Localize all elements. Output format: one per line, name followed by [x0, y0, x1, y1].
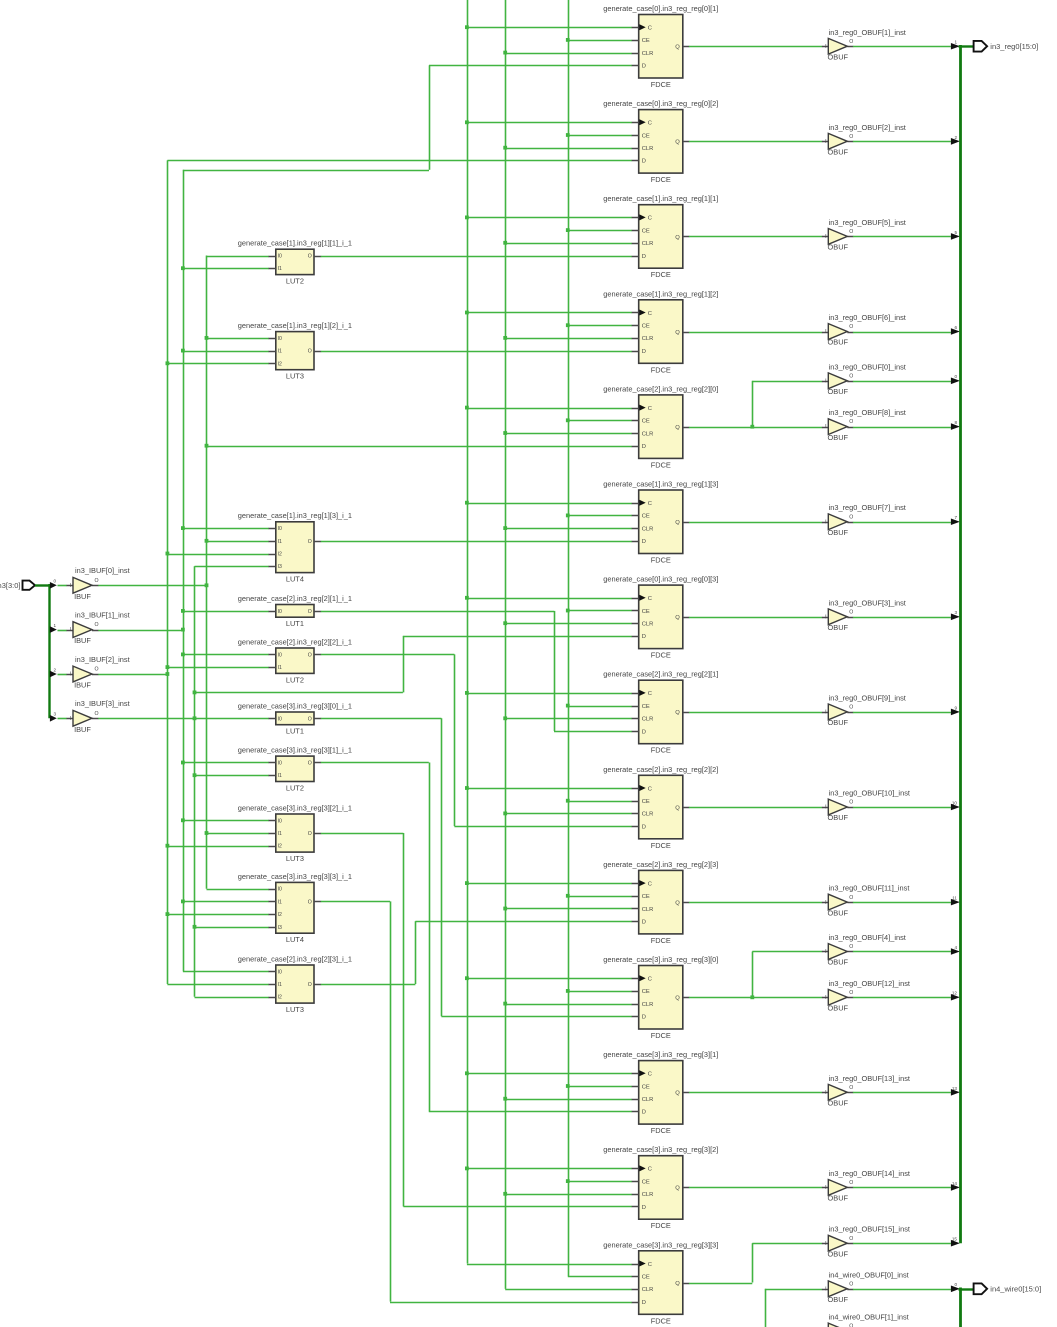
LUT generate_case[3].in3_reg[3][3]_i_1 (LUT4)	[238, 872, 352, 944]
wire LUT3[3][2].O to D of reg[3][2]	[321, 833, 632, 1207]
junction clock spine FDCE 12	[465, 1071, 469, 1075]
junction clock spine FDCE 13	[465, 1167, 469, 1171]
junction clock spine FDCE 6	[465, 501, 469, 505]
wire generate_case[3].in3_reg[3][3]_i_1 I1	[183, 901, 269, 903]
wire CE row to FDCE 2	[568, 135, 632, 137]
wire in3_IBUF[1] to D of reg[0][1]	[183, 65, 632, 170]
svg-text:generate_case[0].in3_reg_reg[0: generate_case[0].in3_reg_reg[0][3]	[603, 575, 718, 584]
svg-text:D: D	[642, 824, 646, 830]
svg-text:I3: I3	[278, 564, 282, 570]
buffer in3_reg0_OBUF[6]_inst OBUF	[822, 313, 906, 347]
svg-text:Q: Q	[675, 330, 680, 336]
svg-text:generate_case[2].in3_reg_reg[2: generate_case[2].in3_reg_reg[2][0]	[603, 384, 718, 393]
wire C row to FDCE 14	[467, 1264, 632, 1266]
svg-text:generate_case[3].in3_reg_reg[3: generate_case[3].in3_reg_reg[3][3]	[603, 1240, 718, 1249]
output port in4_wire0[15:0]	[974, 1283, 1042, 1294]
svg-text:OBUF: OBUF	[828, 528, 849, 537]
svg-text:D: D	[642, 539, 646, 545]
svg-text:I: I	[825, 1286, 826, 1292]
svg-text:FDCE: FDCE	[651, 1316, 671, 1325]
wire in3_IBUF[2] output	[98, 674, 167, 676]
svg-text:C: C	[648, 977, 652, 983]
bus tap arrow bit 3	[951, 610, 960, 620]
svg-text:CE: CE	[642, 133, 650, 139]
svg-text:LUT1: LUT1	[286, 619, 304, 628]
svg-text:FDCE: FDCE	[651, 936, 671, 945]
svg-text:10: 10	[952, 800, 958, 805]
svg-text:OBUF: OBUF	[828, 718, 849, 727]
svg-text:6: 6	[954, 325, 957, 330]
FDCE generate_case[2].in3_reg_reg[2][3]	[603, 860, 718, 945]
svg-text:OBUF: OBUF	[828, 958, 849, 967]
junction clock spine FDCE 3	[465, 216, 469, 220]
svg-text:Q: Q	[675, 425, 680, 431]
FDCE generate_case[3].in3_reg_reg[3][0]	[603, 955, 718, 1040]
junction vD LUT3[3][2].I1	[205, 831, 209, 835]
wire generate_case[2].in3_reg[2][3]_i_1 I1	[167, 984, 269, 986]
svg-text:generate_case[3].in3_reg_reg[3: generate_case[3].in3_reg_reg[3][2]	[603, 1145, 718, 1154]
wire CLR row to FDCE 11	[505, 1004, 632, 1006]
svg-text:O: O	[849, 895, 853, 901]
bus tap arrow bit 4	[951, 945, 960, 955]
wire in3_reg0_OBUF[15]_inst output	[853, 1243, 951, 1245]
wire generate_case[2].in3_reg[2][1]_i_1 I0	[183, 611, 269, 613]
junction CLR spine FDCE 8	[503, 716, 507, 720]
junction CLR spine FDCE 6	[503, 526, 507, 530]
svg-text:I2: I2	[278, 912, 282, 918]
wire generate_case[3].in3_reg[3][2]_i_1 I0	[183, 820, 269, 822]
svg-text:generate_case[1].in3_reg_reg[1: generate_case[1].in3_reg_reg[1][1]	[603, 194, 718, 203]
svg-text:generate_case[1].in3_reg_reg[1: generate_case[1].in3_reg_reg[1][3]	[603, 480, 718, 489]
wire C row to FDCE 3	[467, 217, 632, 219]
wire in3_reg0_OBUF[1]_inst output	[853, 46, 951, 48]
junction vB LUT2[2][2].I0	[181, 653, 185, 657]
wire in3_IBUF[0] to D of reg[2][0]	[207, 446, 633, 448]
wire LUT2[2][2].O to D of reg[2][2]	[321, 654, 632, 826]
svg-text:CLR: CLR	[642, 907, 654, 913]
wire CLR row to FDCE 3	[505, 243, 632, 245]
svg-text:in3_reg0_OBUF[12]_inst: in3_reg0_OBUF[12]_inst	[829, 979, 910, 988]
svg-text:generate_case[2].in3_reg[2][1]: generate_case[2].in3_reg[2][1]_i_1	[238, 594, 352, 603]
svg-text:OBUF: OBUF	[828, 1194, 849, 1203]
svg-text:generate_case[2].in3_reg_reg[2: generate_case[2].in3_reg_reg[2][3]	[603, 860, 718, 869]
svg-text:C: C	[648, 881, 652, 887]
wire CE row to FDCE 7	[568, 610, 632, 612]
wire generate_case[3].in3_reg[3][3]_i_1 I2	[167, 914, 269, 916]
svg-text:FDCE: FDCE	[651, 175, 671, 184]
bus in4_wire0[15:0] to port	[959, 1288, 974, 1290]
wire CLR row to FDCE 9	[505, 813, 632, 815]
junction vB LUT3[1][2].I1	[181, 349, 185, 353]
junction vA LUT2[2][2].I1	[166, 665, 170, 669]
wire generate_case[2].in3_reg[2][2]_i_1 I1	[167, 667, 269, 669]
junction CE spine FDCE 2	[566, 133, 570, 137]
svg-text:O: O	[849, 419, 853, 425]
svg-text:4: 4	[954, 945, 957, 950]
wire in3_reg0_OBUF[6]_inst output	[853, 332, 951, 334]
svg-text:I0: I0	[278, 526, 282, 532]
svg-text:CE: CE	[642, 514, 650, 520]
junction CE spine FDCE 11	[566, 989, 570, 993]
svg-text:CE: CE	[642, 1275, 650, 1281]
wire Q of reg[2][0] branch up to OBUF[0]	[752, 381, 822, 427]
junction vA LUT4[3][3].I2	[166, 912, 170, 916]
svg-text:I: I	[825, 519, 826, 525]
svg-text:in3_reg0_OBUF[6]_inst: in3_reg0_OBUF[6]_inst	[829, 313, 906, 322]
wire CLR row to FDCE 4	[505, 338, 632, 340]
junction CLR spine FDCE 3	[503, 241, 507, 245]
wire tap to in3_IBUF[0] input	[58, 585, 67, 587]
svg-text:CLR: CLR	[642, 241, 654, 247]
LUT generate_case[1].in3_reg[1][1]_i_1 (LUT2)	[238, 239, 352, 286]
wire CE spine vertical	[568, 0, 570, 1276]
svg-text:LUT4: LUT4	[286, 935, 304, 944]
buffer in3_reg0_OBUF[9]_inst OBUF	[822, 693, 906, 727]
bus tap arrow bit 8	[951, 420, 960, 430]
buffer in3_IBUF[1]_inst IBUF	[67, 611, 130, 646]
svg-text:I2: I2	[278, 995, 282, 1001]
junction CE spine FDCE 8	[566, 704, 570, 708]
wire in3_reg0_OBUF[2]_inst output	[853, 141, 951, 143]
svg-text:O: O	[849, 514, 853, 520]
bus tap arrow bit 0 of in3[3:0]	[50, 579, 57, 589]
svg-text:CE: CE	[642, 324, 650, 330]
svg-text:Q: Q	[675, 1281, 680, 1287]
svg-text:0: 0	[954, 1282, 957, 1287]
svg-text:I1: I1	[278, 266, 282, 272]
wire in3_reg0_OBUF[10]_inst output	[853, 807, 951, 809]
bus tap arrow bit 11	[951, 896, 960, 906]
junction CE spine FDCE 6	[566, 514, 570, 518]
junction vC IBUF[3]	[193, 716, 197, 720]
svg-text:O: O	[308, 899, 312, 905]
svg-text:FDCE: FDCE	[651, 1031, 671, 1040]
svg-text:O: O	[849, 1324, 853, 1327]
svg-text:1: 1	[53, 623, 56, 628]
svg-text:C: C	[648, 501, 652, 507]
junction CE spine FDCE 4	[566, 323, 570, 327]
svg-text:in3_reg0_OBUF[5]_inst: in3_reg0_OBUF[5]_inst	[829, 218, 906, 227]
junction vA LUT4[1][3].I2	[166, 552, 170, 556]
svg-text:O: O	[849, 373, 853, 379]
wire Q of FDCE 11 to OBUF	[689, 997, 822, 999]
buffer in3_reg0_OBUF[13]_inst OBUF	[822, 1074, 910, 1108]
FDCE generate_case[1].in3_reg_reg[1][3]	[603, 480, 718, 565]
svg-text:generate_case[3].in3_reg[3][0]: generate_case[3].in3_reg[3][0]_i_1	[238, 702, 352, 711]
wire generate_case[1].in3_reg[1][3]_i_1 I3	[195, 566, 270, 568]
svg-text:LUT3: LUT3	[286, 372, 304, 381]
svg-text:I: I	[825, 44, 826, 50]
svg-text:FDCE: FDCE	[651, 365, 671, 374]
junction vB LUT1[2][1].I0	[181, 609, 185, 613]
svg-text:in3[3:0]: in3[3:0]	[0, 581, 21, 590]
wire Q of FDCE 6 to OBUF	[689, 522, 822, 524]
svg-text:CE: CE	[642, 799, 650, 805]
svg-text:I: I	[825, 424, 826, 430]
junction CE spine FDCE 3	[566, 228, 570, 232]
svg-text:CLR: CLR	[642, 1002, 654, 1008]
svg-text:I2: I2	[278, 361, 282, 367]
svg-text:OBUF: OBUF	[828, 813, 849, 822]
wire Q of FDCE 7 to OBUF	[689, 617, 822, 619]
wire Q of FDCE 8 to OBUF	[689, 712, 822, 714]
buffer in3_reg0_OBUF[7]_inst OBUF	[822, 503, 906, 537]
svg-text:1: 1	[954, 40, 957, 45]
wire tap to in3_IBUF[3] input	[58, 718, 67, 720]
svg-text:I: I	[70, 716, 71, 722]
FDCE generate_case[1].in3_reg_reg[1][1]	[603, 194, 718, 279]
svg-text:generate_case[3].in3_reg[3][1]: generate_case[3].in3_reg[3][1]_i_1	[238, 746, 352, 755]
buffer in3_reg0_OBUF[12]_inst OBUF	[822, 979, 910, 1013]
svg-text:I0: I0	[278, 716, 282, 722]
wire C row to FDCE 11	[467, 978, 632, 980]
svg-text:generate_case[1].in3_reg[1][1]: generate_case[1].in3_reg[1][1]_i_1	[238, 239, 352, 248]
wire LUT4[3][3].O to D of reg[3][3]	[321, 901, 632, 1302]
svg-text:OBUF: OBUF	[828, 338, 849, 347]
svg-text:O: O	[849, 1085, 853, 1091]
wire Q of FDCE 5 to OBUF	[689, 427, 822, 429]
svg-text:CE: CE	[642, 609, 650, 615]
junction CLR spine FDCE 2	[503, 146, 507, 150]
wire C row to FDCE 12	[467, 1073, 632, 1075]
wire CLR row to FDCE 6	[505, 528, 632, 530]
wire generate_case[3].in3_reg[3][2]_i_1 I2	[167, 846, 269, 848]
buffer in3_reg0_OBUF[1]_inst OBUF	[822, 28, 906, 62]
svg-text:O: O	[849, 1281, 853, 1287]
bus tap arrow bit 2 of in3[3:0]	[50, 667, 57, 677]
svg-text:D: D	[642, 349, 646, 355]
wire CE row to FDCE 14	[568, 1276, 632, 1278]
wire CLR row to FDCE 10	[505, 908, 632, 910]
svg-text:D: D	[642, 1110, 646, 1116]
junction vB LUT2[3][1].I0	[181, 761, 185, 765]
wire Q of FDCE 9 to OBUF	[689, 807, 822, 809]
wire CLR row to FDCE 1	[505, 53, 632, 55]
svg-text:in3_reg0_OBUF[15]_inst: in3_reg0_OBUF[15]_inst	[829, 1225, 910, 1234]
svg-text:in3_reg0[15:0]: in3_reg0[15:0]	[990, 42, 1038, 51]
wire LUT1[3][0].O to D of reg[3][0]	[321, 718, 632, 1016]
svg-text:O: O	[308, 349, 312, 355]
svg-text:Q: Q	[675, 45, 680, 51]
wire generate_case[2].in3_reg[2][3]_i_1 I0	[183, 971, 269, 973]
junction CE spine FDCE 10	[566, 894, 570, 898]
svg-text:IBUF: IBUF	[74, 725, 91, 734]
wire CLR row to FDCE 2	[505, 148, 632, 150]
LUT generate_case[3].in3_reg[3][1]_i_1 (LUT2)	[238, 746, 352, 793]
bus tap arrow bit 1	[951, 40, 960, 50]
wire clock spine vertical	[467, 0, 469, 1264]
wire C row to FDCE 10	[467, 883, 632, 885]
junction clock spine FDCE 8	[465, 691, 469, 695]
svg-text:OBUF: OBUF	[828, 1004, 849, 1013]
junction CLR spine FDCE 9	[503, 812, 507, 816]
junction CLR spine FDCE 5	[503, 431, 507, 435]
svg-text:in4_wire0_OBUF[0]_inst: in4_wire0_OBUF[0]_inst	[829, 1270, 909, 1279]
svg-text:generate_case[3].in3_reg_reg[3: generate_case[3].in3_reg_reg[3][0]	[603, 955, 718, 964]
svg-text:LUT4: LUT4	[286, 575, 304, 584]
svg-text:in3_reg0_OBUF[10]_inst: in3_reg0_OBUF[10]_inst	[829, 789, 910, 798]
svg-text:LUT2: LUT2	[286, 784, 304, 793]
wire in3_IBUF[1] output	[98, 630, 183, 632]
svg-text:C: C	[648, 311, 652, 317]
wire tap to in3_IBUF[2] input	[58, 674, 67, 676]
wire CE row to FDCE 4	[568, 325, 632, 327]
wire generate_case[3].in3_reg[3][1]_i_1 I0	[183, 762, 269, 764]
buffer in3_reg0_OBUF[2]_inst OBUF	[822, 123, 906, 157]
FDCE generate_case[0].in3_reg_reg[0][3]	[603, 575, 718, 660]
svg-text:I1: I1	[278, 349, 282, 355]
junction CLR spine FDCE 4	[503, 336, 507, 340]
svg-text:O: O	[308, 982, 312, 988]
svg-text:in3_reg0_OBUF[2]_inst: in3_reg0_OBUF[2]_inst	[829, 123, 906, 132]
wire generate_case[1].in3_reg[1][2]_i_1 I0	[207, 338, 270, 340]
bus tap arrow bit 12	[951, 991, 960, 1001]
svg-text:CE: CE	[642, 1179, 650, 1185]
svg-text:I0: I0	[278, 652, 282, 658]
svg-text:FDCE: FDCE	[651, 556, 671, 565]
wire CLR row to FDCE 8	[505, 718, 632, 720]
junction vB IBUF[1]	[181, 628, 185, 632]
svg-text:D: D	[642, 1015, 646, 1021]
svg-text:in4_wire0_OBUF[1]_inst: in4_wire0_OBUF[1]_inst	[829, 1313, 909, 1322]
svg-text:O: O	[849, 990, 853, 996]
svg-text:OBUF: OBUF	[828, 1295, 849, 1304]
junction vD LUT3[1][2].I0	[205, 336, 209, 340]
svg-text:generate_case[2].in3_reg_reg[2: generate_case[2].in3_reg_reg[2][1]	[603, 670, 718, 679]
svg-text:OBUF: OBUF	[828, 1099, 849, 1108]
junction clock spine FDCE 5	[465, 406, 469, 410]
wire generate_case[1].in3_reg[1][3]_i_1 I0	[183, 528, 269, 530]
junction vD IBUF[0]	[205, 583, 209, 587]
buffer in3_reg0_OBUF[10]_inst OBUF	[822, 789, 910, 823]
svg-text:LUT1: LUT1	[286, 727, 304, 736]
junction vB LUT4[1][3].I0	[181, 526, 185, 530]
svg-text:OBUF: OBUF	[828, 908, 849, 917]
junction clock spine FDCE 11	[465, 976, 469, 980]
svg-text:2: 2	[954, 135, 957, 140]
wire LUT3[1][2].O to D of reg[1][2]	[321, 351, 632, 353]
bus in4_wire0[15:0] vertical	[959, 1288, 962, 1327]
wire in3_reg0_OBUF[11]_inst output	[853, 902, 951, 904]
wire Q of FDCE 3 to OBUF	[689, 236, 822, 238]
svg-text:D: D	[642, 444, 646, 450]
svg-text:O: O	[849, 705, 853, 711]
svg-text:FDCE: FDCE	[651, 80, 671, 89]
wire in4_wire0_OBUF[0]_inst output	[853, 1289, 951, 1291]
wire in3_reg0_OBUF[7]_inst output	[853, 522, 951, 524]
bus in3_reg0[15:0] to port	[959, 45, 974, 47]
svg-text:I1: I1	[278, 899, 282, 905]
junction vC LUT4[3][3].I3	[193, 925, 197, 929]
junction CLR spine FDCE 13	[503, 1192, 507, 1196]
wire vertical net in3_IBUF[2]	[167, 160, 169, 984]
svg-text:in3_reg0_OBUF[14]_inst: in3_reg0_OBUF[14]_inst	[829, 1169, 910, 1178]
bus tap arrow bit 0	[951, 374, 960, 384]
svg-text:D: D	[642, 634, 646, 640]
svg-text:Q: Q	[675, 520, 680, 526]
wire generate_case[2].in3_reg[2][2]_i_1 I0	[183, 654, 269, 656]
svg-text:3: 3	[954, 610, 957, 615]
bus tap arrow bit 9	[951, 705, 960, 715]
svg-text:CE: CE	[642, 228, 650, 234]
svg-text:CLR: CLR	[642, 51, 654, 57]
svg-text:I1: I1	[278, 665, 282, 671]
svg-text:OBUF: OBUF	[828, 53, 849, 62]
svg-text:CE: CE	[642, 894, 650, 900]
bus tap arrow bit 7	[951, 515, 960, 525]
svg-text:generate_case[0].in3_reg_reg[0: generate_case[0].in3_reg_reg[0][1]	[603, 4, 718, 13]
FDCE generate_case[0].in3_reg_reg[0][2]	[603, 99, 718, 184]
wire generate_case[3].in3_reg[3][3]_i_1 I0	[207, 889, 270, 891]
svg-text:CE: CE	[642, 38, 650, 44]
junction CLR spine FDCE 12	[503, 1097, 507, 1101]
wire vertical net in3_IBUF[3]	[194, 566, 196, 997]
svg-text:I3: I3	[278, 925, 282, 931]
wire LUT2[3][1].O to D of reg[3][1]	[321, 763, 632, 1112]
junction vA IBUF[2]	[166, 672, 170, 676]
svg-text:OBUF: OBUF	[828, 433, 849, 442]
svg-text:CLR: CLR	[642, 717, 654, 723]
svg-text:FDCE: FDCE	[651, 1126, 671, 1135]
svg-text:O: O	[308, 539, 312, 545]
svg-text:generate_case[3].in3_reg[3][3]: generate_case[3].in3_reg[3][3]_i_1	[238, 872, 352, 881]
junction clock spine FDCE 4	[465, 311, 469, 315]
svg-text:generate_case[2].in3_reg[2][2]: generate_case[2].in3_reg[2][2]_i_1	[238, 638, 352, 647]
wire Q of FDCE 12 to OBUF	[689, 1092, 822, 1094]
svg-text:13: 13	[952, 1086, 958, 1091]
input port in3[3:0]	[0, 581, 35, 590]
svg-text:FDCE: FDCE	[651, 841, 671, 850]
svg-text:O: O	[849, 39, 853, 45]
svg-text:7: 7	[954, 515, 957, 520]
junction CLR spine FDCE 10	[503, 907, 507, 911]
FDCE generate_case[2].in3_reg_reg[2][1]	[603, 670, 718, 755]
bus tap arrow bit 6	[951, 325, 960, 335]
svg-text:C: C	[648, 1167, 652, 1173]
svg-text:CLR: CLR	[642, 146, 654, 152]
LUT generate_case[3].in3_reg[3][2]_i_1 (LUT3)	[238, 804, 352, 864]
wire in3_reg0_OBUF[8]_inst output	[853, 427, 951, 429]
wire LUT1[2][1].O to D of reg[2][1]	[321, 611, 632, 732]
wire Q of FDCE 1 to OBUF	[689, 46, 822, 48]
svg-text:CE: CE	[642, 1084, 650, 1090]
wire CE row to FDCE 13	[568, 1181, 632, 1183]
buffer in3_IBUF[3]_inst IBUF	[67, 699, 130, 734]
junction vC to D of reg[0][3]	[193, 691, 197, 695]
wire generate_case[1].in3_reg[1][1]_i_1 I0	[207, 256, 270, 258]
svg-text:I1: I1	[278, 982, 282, 988]
bus tap arrow bit 2	[951, 135, 960, 145]
svg-text:O: O	[308, 761, 312, 767]
svg-text:I: I	[825, 329, 826, 335]
wire CLR row to FDCE 14	[505, 1289, 632, 1291]
wire CE row to FDCE 10	[568, 896, 632, 898]
svg-text:I: I	[825, 900, 826, 906]
junction CE spine FDCE 13	[566, 1179, 570, 1183]
svg-text:O: O	[95, 711, 99, 717]
wire CE row to FDCE 12	[568, 1086, 632, 1088]
svg-text:O: O	[849, 609, 853, 615]
bus tap arrow bit 1 of in3[3:0]	[50, 623, 57, 633]
svg-text:OBUF: OBUF	[828, 387, 849, 396]
svg-text:CLR: CLR	[642, 812, 654, 818]
junction Q reg[2][0] split	[750, 425, 754, 429]
junction CLR spine FDCE 1	[503, 51, 507, 55]
svg-text:3: 3	[53, 712, 56, 717]
FDCE generate_case[3].in3_reg_reg[3][3]	[603, 1240, 718, 1325]
wire in3_reg0_OBUF[14]_inst output	[853, 1187, 951, 1189]
svg-text:D: D	[642, 729, 646, 735]
